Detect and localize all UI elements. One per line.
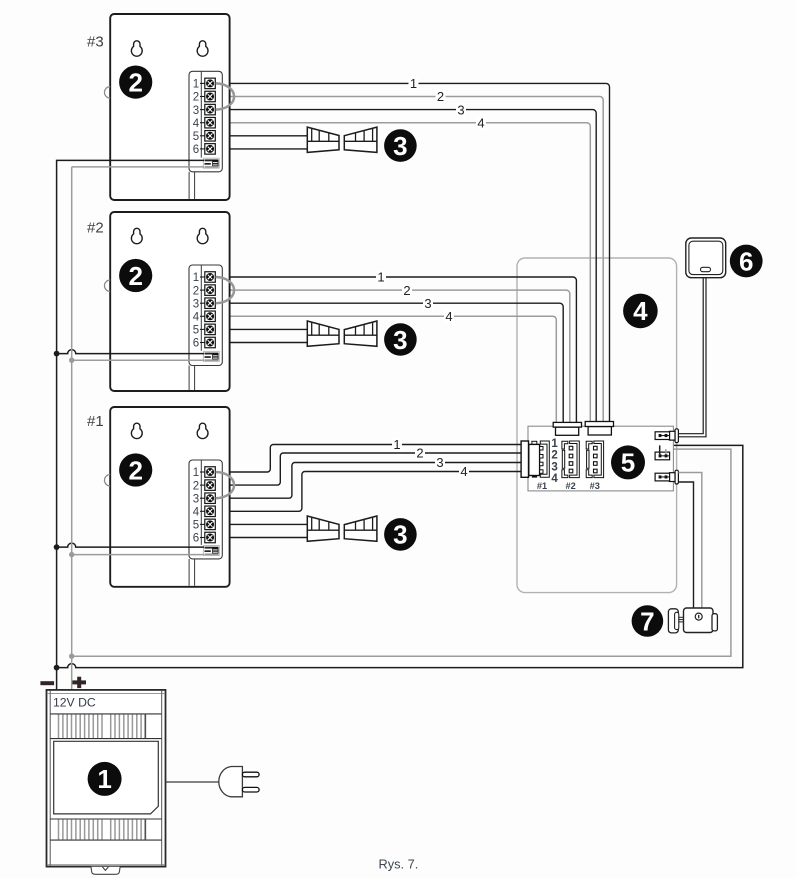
wire monitor#1 terminal3 to connector#1 — [215, 463, 521, 499]
monitor #3 terminal strip divider — [200, 71, 202, 157]
monitor #3 screw terminal 6 — [193, 144, 216, 156]
badge 1 power supply — [88, 762, 122, 796]
svg-text:6: 6 — [193, 338, 199, 350]
monitor #1 terminal strip divider — [200, 460, 202, 545]
doorbell button 6 — [686, 238, 726, 278]
svg-text:4: 4 — [551, 473, 558, 485]
svg-text:#3: #3 — [87, 34, 104, 51]
svg-text:2: 2 — [128, 261, 142, 291]
cable splice 3 for monitor #3 — [307, 127, 377, 152]
svg-text:4: 4 — [460, 464, 467, 479]
board pin numbers 1 2 3 4 — [551, 438, 558, 485]
positive branch to monitor #3 — [72, 166, 204, 168]
badge 3 splice #1 — [384, 518, 417, 551]
terminal board 5 body — [528, 426, 673, 491]
svg-text:3: 3 — [436, 455, 443, 470]
positive bottom wire to terminal board — [72, 449, 731, 656]
monitor #3 screw terminal 4 — [193, 117, 216, 129]
svg-text:1: 1 — [377, 270, 384, 285]
wire board to electric lock gray — [678, 473, 701, 608]
svg-text:7: 7 — [640, 606, 654, 636]
monitor #2 mounting keyhole right — [197, 228, 208, 243]
wire monitor#2 terminal1 to connector#2 — [215, 277, 576, 422]
board lock connector — [655, 470, 678, 484]
board socket #2 — [562, 441, 579, 478]
junction dots positive bus — [69, 358, 74, 363]
badge 4 outdoor panel — [623, 294, 658, 329]
monitor #3 left-edge bump — [104, 87, 110, 99]
badge 3 splice #2 — [384, 323, 417, 356]
wire monitor#3 terminal4 to connector#3 — [215, 123, 590, 422]
power-in wire stubs into middle connector — [659, 445, 661, 454]
svg-text:2: 2 — [437, 89, 444, 104]
monitor #1 screw terminal 6 — [193, 532, 216, 544]
monitor #1 cable channel — [188, 559, 190, 586]
monitor #3 cable channel — [188, 172, 190, 199]
svg-text:3: 3 — [193, 105, 199, 117]
svg-text:#1: #1 — [87, 413, 104, 430]
svg-text:1: 1 — [193, 79, 199, 91]
positive branch to monitor #2 — [72, 359, 204, 361]
wire monitor#3 terminal6 to splice — [215, 148, 307, 150]
monitor #2 screw terminal 2 — [193, 285, 216, 297]
svg-text:2: 2 — [128, 67, 142, 97]
monitor #3 screw terminal 3 — [193, 104, 216, 116]
plug of monitor #2 cable on board top — [553, 422, 581, 435]
wire monitor#1 terminal4 to connector#1 — [215, 472, 521, 512]
monitor #1 screw terminal 1 — [193, 467, 216, 479]
svg-text:#2: #2 — [87, 220, 104, 237]
svg-text:5: 5 — [193, 325, 199, 337]
monitor #2 terminal strip divider — [200, 265, 202, 351]
monitor #3 terminal strip outline — [189, 71, 222, 172]
monitor #1 jumper loop terminals 1-3 — [216, 472, 235, 498]
svg-text:2: 2 — [193, 92, 199, 104]
board socket #1 with plug — [521, 441, 549, 478]
monitor #2 left-edge bump — [104, 280, 110, 292]
monitor #2 DC power jack — [203, 351, 219, 361]
wire monitor#2 terminal6 to splice — [215, 342, 307, 344]
svg-text:3: 3 — [193, 298, 199, 310]
monitor #3 screw terminal 1 — [193, 78, 216, 90]
plus symbol — [72, 677, 86, 688]
monitor #3 mounting keyhole left — [131, 41, 142, 56]
svg-text:2: 2 — [403, 283, 410, 298]
plug of monitor #3 cable on board top — [585, 422, 613, 436]
svg-text:5: 5 — [193, 520, 199, 532]
svg-text:6: 6 — [193, 144, 199, 156]
badge 2 monitor #2 — [119, 259, 152, 292]
negative bus wire from PSU to monitors and panel — [57, 160, 204, 690]
svg-text:1: 1 — [551, 438, 558, 450]
badge 3 splice #3 — [384, 129, 417, 162]
positive branch to monitor #1 — [72, 554, 204, 556]
badge 2 monitor #3 — [119, 66, 152, 99]
svg-text:4: 4 — [193, 118, 200, 130]
svg-text:#2: #2 — [565, 481, 575, 491]
wire monitor#3 terminal3 to connector#3 — [215, 110, 596, 422]
monitor #2 terminal strip outline — [189, 265, 222, 366]
wire monitor#2 terminal4 to connector#2 — [215, 316, 556, 422]
svg-text:2: 2 — [128, 455, 142, 485]
outdoor panel 4 outline — [517, 258, 677, 593]
svg-text:4: 4 — [193, 507, 200, 519]
power supply lower vent slots — [59, 820, 146, 840]
badge 2 monitor #1 — [119, 453, 152, 486]
svg-text:4: 4 — [445, 309, 452, 324]
negative branch to monitor #1 — [57, 543, 204, 547]
svg-text:3: 3 — [393, 325, 407, 355]
wire monitor#1 terminal5 to splice — [215, 523, 307, 525]
electric lock spring — [678, 617, 683, 622]
badge 5 terminal board — [611, 445, 645, 479]
mains plug — [219, 767, 259, 797]
svg-text:2: 2 — [551, 449, 557, 461]
monitor #2 screw terminal 1 — [193, 272, 216, 284]
monitor #2 screw terminal 5 — [193, 324, 216, 336]
monitor #1 screw terminal 4 — [193, 506, 216, 518]
wire monitor#3 terminal1 to connector#3 — [215, 83, 609, 421]
monitor #3 screw terminal 5 — [193, 131, 216, 143]
power supply upper vent slots — [59, 715, 146, 739]
monitor #2 screw terminal 4 — [193, 311, 216, 323]
svg-text:12V DC: 12V DC — [53, 696, 96, 710]
monitor #3 mounting keyhole right — [197, 41, 208, 56]
wire board to doorbell button (pair) — [678, 278, 703, 434]
cable splice 3 for monitor #2 — [307, 321, 377, 346]
negative branch to monitor #2 — [57, 350, 204, 354]
monitor #3 DC power jack — [203, 158, 219, 168]
svg-text:#1: #1 — [537, 481, 547, 491]
monitor #3 jumper loop terminals 1-3 — [216, 83, 235, 109]
svg-text:1: 1 — [193, 467, 199, 479]
wire labels monitor#1 1 2 3 4 — [392, 437, 402, 452]
monitor #3 screw terminal 2 — [193, 91, 216, 103]
monitor #1 screw terminal 2 — [193, 480, 216, 492]
monitor #1 DC power jack — [203, 546, 219, 556]
svg-text:5: 5 — [193, 131, 199, 143]
cable splice 3 for monitor #1 — [307, 516, 377, 541]
monitor #2 mounting keyhole left — [131, 228, 142, 243]
intercom monitor unit #1 body — [110, 407, 229, 587]
monitor #1 screw terminal 3 — [193, 493, 216, 505]
electric lock strike plate — [668, 609, 678, 633]
monitor #1 screw terminal 5 — [193, 519, 216, 531]
svg-text:#3: #3 — [590, 481, 600, 491]
svg-text:1: 1 — [193, 272, 199, 284]
power supply 1 body — [47, 690, 166, 867]
intercom monitor unit #3 body — [110, 14, 229, 200]
svg-text:3: 3 — [393, 131, 407, 161]
svg-text:2: 2 — [193, 285, 199, 297]
board doorbell-button connector — [655, 429, 678, 443]
intercom monitor unit #2 body — [110, 212, 229, 391]
svg-text:4: 4 — [633, 296, 648, 326]
monitor #1 terminal strip outline — [189, 460, 222, 559]
wire labels monitor#3 1 2 3 4 — [409, 76, 419, 91]
svg-text:3: 3 — [457, 102, 464, 117]
wire monitor#1 terminal6 to splice — [215, 537, 307, 539]
wire monitor#3 terminal5 to splice — [215, 135, 307, 137]
wire monitor#1 terminal2 to connector#1 — [215, 453, 521, 485]
svg-text:3: 3 — [193, 493, 199, 505]
minus symbol — [40, 681, 54, 685]
svg-text:5: 5 — [621, 448, 635, 478]
wire monitor#1 terminal1 to connector#1 — [215, 445, 521, 473]
board labels #1 #2 #3 — [537, 481, 600, 491]
monitor #1 mounting keyhole left — [131, 423, 142, 438]
monitor #2 cable channel — [188, 366, 190, 391]
badge 7 electric lock — [632, 605, 664, 637]
svg-text:6: 6 — [193, 533, 199, 545]
wire monitor#2 terminal3 to connector#2 — [215, 303, 563, 422]
monitor #1 left-edge bump — [104, 475, 110, 487]
positive bus wire gray — [71, 167, 73, 690]
svg-text:1: 1 — [393, 437, 400, 452]
badge 6 doorbell button — [730, 245, 763, 278]
monitor #2 screw terminal 6 — [193, 337, 216, 349]
svg-text:3: 3 — [393, 520, 407, 550]
wire monitor#2 terminal5 to splice — [215, 328, 307, 330]
svg-text:6: 6 — [739, 246, 753, 276]
junction dots negative bus — [54, 351, 60, 357]
power supply DIN clip — [91, 867, 120, 875]
wire labels monitor#2 1 2 3 4 — [376, 270, 386, 285]
svg-text:Rys. 7.: Rys. 7. — [379, 856, 419, 871]
svg-text:4: 4 — [193, 312, 200, 324]
monitor #2 jumper loop terminals 1-3 — [216, 277, 235, 303]
board middle connector (power in) — [655, 452, 670, 460]
negative bottom wire to terminal board — [57, 445, 743, 667]
wire board to electric lock dark — [678, 482, 693, 608]
power cord — [166, 781, 219, 783]
electric lock body — [684, 608, 714, 633]
monitor #1 mounting keyhole right — [197, 423, 208, 438]
wire monitor#2 terminal2 to connector#2 — [215, 290, 570, 422]
board socket #3 — [586, 441, 603, 478]
electric lock latch — [712, 614, 717, 631]
monitor #2 screw terminal 3 — [193, 298, 216, 310]
svg-text:3: 3 — [424, 296, 431, 311]
svg-text:2: 2 — [416, 446, 423, 461]
svg-text:1: 1 — [410, 76, 417, 91]
svg-text:1: 1 — [97, 764, 111, 794]
power supply inner module — [54, 741, 159, 814]
wire monitor#3 terminal2 to connector#3 — [215, 97, 603, 422]
svg-text:4: 4 — [477, 115, 484, 130]
svg-text:2: 2 — [193, 480, 199, 492]
